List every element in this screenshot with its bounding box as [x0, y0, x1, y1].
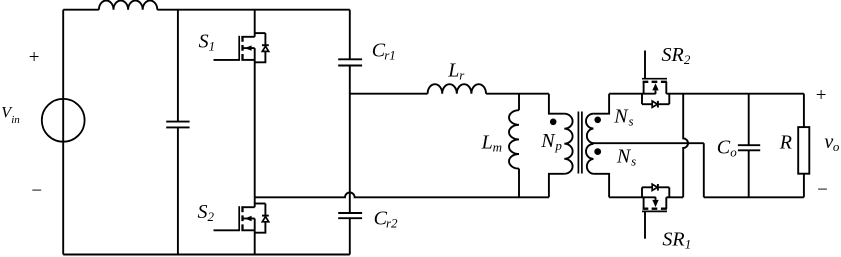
label + (output): [816, 85, 827, 106]
wire midpoint to primary return (with hop over Cr branch): [255, 193, 549, 198]
wire center tap descent: [703, 143, 705, 197]
transistor SR2: gate stub: [644, 51, 646, 79]
transistor SR2: left contact: [643, 82, 645, 94]
label S2: [198, 201, 215, 224]
svg-text:1: 1: [209, 39, 216, 54]
svg-text:2: 2: [208, 209, 215, 224]
wire SR1 drain lead (from secondary bottom): [609, 196, 656, 198]
wire load top stem: [803, 94, 805, 127]
node dot primary: [550, 119, 557, 126]
diode S2 body: anode line and step to source: [255, 222, 266, 233]
label Lr: [447, 60, 465, 83]
inductor Lm (4 bumps, bulge left): [509, 110, 519, 168]
wire SR1 source lead to junction vertical: [666, 196, 683, 198]
svg-text:C: C: [717, 137, 731, 159]
transformer primary winding (4 arcs, bulge right): [564, 114, 572, 174]
wire primary top lead: [549, 94, 564, 114]
svg-text:L: L: [481, 131, 493, 153]
transistor SR2: gate bar: [642, 78, 667, 80]
wire output bottom rail: [704, 196, 804, 198]
transistor SR1: left contact: [643, 197, 645, 208]
svg-text:p: p: [554, 138, 562, 153]
inductor input filter (top, 4 bumps): [99, 0, 157, 9]
svg-text:L: L: [447, 60, 459, 82]
capacitor Cr1 plates: [338, 59, 362, 65]
svg-text:S: S: [198, 201, 208, 223]
capacitor Cr2 plates: [338, 213, 362, 218]
diode SR1 body: anode line: [642, 186, 652, 188]
wire load bottom stem: [803, 174, 805, 198]
diode S2 body: cathode bar: [262, 215, 269, 217]
wire output top rail: [666, 93, 804, 95]
label SR1: [662, 229, 691, 252]
wire resonant branch to Lr: [350, 93, 428, 95]
transistor SR2: channel segments: [643, 81, 667, 83]
svg-text:o: o: [833, 139, 840, 154]
label Cr1: [372, 40, 396, 63]
label R: [779, 131, 792, 153]
label Vin: [1, 105, 20, 126]
wire secondary top lead: [593, 94, 609, 114]
transistor S2: body tie with arrow: [242, 218, 254, 220]
svg-text:o: o: [730, 145, 737, 160]
diode S1 body: cathode bar: [262, 44, 269, 46]
transistor S1: drain contact: [241, 36, 254, 38]
svg-text:r1: r1: [384, 48, 396, 63]
transistor S1: gate lead: [214, 59, 240, 61]
diode SR1 body: cathode bar: [657, 184, 659, 191]
diode SR1 body: triangle: [652, 184, 657, 190]
wire left vertical: [62, 10, 64, 255]
svg-text:N: N: [540, 130, 556, 152]
label S1: [199, 31, 216, 54]
wire center tap to output return: [592, 142, 704, 144]
transformer secondary upper winding (2 arcs, bulge left): [586, 114, 593, 144]
label Lm: [481, 131, 502, 154]
transistor S1: source contact: [241, 59, 254, 61]
svg-text:r: r: [459, 68, 465, 83]
svg-text:m: m: [493, 139, 502, 154]
wire Cr branch vertical (Cr2 to bottom rail): [349, 218, 351, 254]
svg-text:in: in: [11, 114, 20, 126]
svg-text:SR: SR: [662, 44, 684, 66]
transistor S1: drain vertical: [254, 10, 256, 37]
svg-text:SR: SR: [662, 229, 684, 251]
svg-text:S: S: [199, 31, 209, 53]
wire top rail left segment: [63, 9, 99, 11]
transistor SR2: right contact: [665, 82, 667, 94]
wire Cr branch vertical (Cr1 to Cr2, through resonant junction and under hop): [349, 66, 351, 214]
node dot secondary upper: [594, 117, 601, 124]
transistor SR2: body arrow: [655, 90, 657, 94]
svg-text:−: −: [817, 179, 828, 200]
inductor Lr (4 bumps): [428, 84, 486, 94]
transistor SR1: right contact: [665, 197, 667, 208]
transistor S2: gate bar: [238, 206, 240, 231]
svg-text:N: N: [613, 105, 629, 127]
diode SR1 body: cathode line: [658, 186, 669, 188]
wire secondary bottom lead: [593, 174, 609, 198]
label - (input): [31, 181, 42, 202]
capacitor input: bottom stem: [177, 127, 179, 254]
transistor S2: source contact: [241, 229, 254, 231]
transformer core lines: [578, 112, 582, 174]
svg-text:2: 2: [684, 52, 691, 67]
diode SR2 body: cathode line: [658, 103, 669, 105]
label Ns lower: [616, 146, 636, 169]
wire SR2 diode left step: [641, 94, 643, 105]
label Ns upper: [613, 105, 633, 128]
transformer secondary lower winding (2 arcs, bulge left): [586, 144, 593, 174]
transistor S2: drain vertical: [254, 197, 256, 207]
wire S2 source vertical to bottom rail: [254, 219, 256, 255]
svg-text:s: s: [629, 113, 634, 128]
diode S2 body: cathode line: [264, 204, 266, 216]
transistor S2: gate lead: [214, 229, 240, 231]
capacitor Co plates: [738, 145, 760, 150]
diode S2 body: triangle: [262, 217, 268, 222]
label Co: [717, 137, 737, 160]
transistor S1: gate bar: [238, 36, 240, 61]
diode S1 body: triangle: [262, 46, 268, 51]
diode SR2 body: triangle: [652, 101, 657, 107]
capacitor Co: bottom stem: [748, 150, 750, 197]
diode SR2 body: anode line: [642, 103, 652, 105]
capacitor input: top stem: [177, 10, 179, 122]
wire S1 source vertical to midpoint: [254, 48, 256, 197]
wire SR junction vertical with hop over center tap: [683, 94, 688, 198]
capacitor input plates: [166, 122, 189, 128]
svg-text:R: R: [779, 131, 792, 153]
svg-text:1: 1: [685, 237, 692, 252]
svg-text:N: N: [616, 146, 632, 168]
wire SR1 diode left step: [641, 187, 643, 197]
transistor S1: channel segments: [241, 36, 243, 60]
wire SR1 diode right step: [668, 187, 670, 197]
transistor SR1: gate bar: [642, 210, 667, 212]
svg-text:+: +: [29, 47, 40, 68]
wire Lr to primary node: [486, 93, 549, 95]
label vo: [824, 131, 840, 154]
wire primary bottom lead: [549, 174, 564, 198]
diode SR2 body: cathode bar: [657, 101, 659, 108]
diode S1 body: cathode line: [264, 33, 266, 45]
wire Cr branch vertical (top rail to Cr1): [349, 10, 351, 60]
wire Lm bottom lead: [518, 169, 520, 198]
svg-text:−: −: [31, 181, 42, 202]
label + (input): [29, 47, 40, 68]
wire SR2 drain lead (from secondary top): [609, 93, 656, 95]
transistor S1: body tie with arrow: [242, 47, 254, 49]
transistor S2: branch to diode: [255, 203, 266, 205]
transistor S2: drain contact: [241, 206, 254, 208]
wire SR2 diode right step: [668, 94, 670, 105]
label Np: [540, 130, 562, 153]
wire bottom rail: [63, 254, 350, 256]
resistor R body: [798, 127, 809, 174]
transistor SR1: body arrow: [655, 197, 657, 200]
svg-text:r2: r2: [386, 216, 398, 231]
label SR2: [662, 44, 691, 67]
transistor SR1: channel segments: [643, 208, 667, 210]
wire top rail right segment: [157, 9, 349, 11]
label - (output): [817, 179, 828, 200]
node dot secondary lower: [594, 148, 601, 155]
transistor S1: branch to diode: [255, 32, 266, 34]
diode S1 body: anode line and step to source: [255, 52, 266, 63]
wire Lm top lead: [518, 94, 520, 111]
svg-text:s: s: [631, 154, 636, 169]
transistor SR1: gate stub: [644, 211, 646, 238]
label Cr2: [374, 208, 398, 231]
source Vin circle: [42, 99, 85, 142]
svg-text:+: +: [816, 85, 827, 106]
capacitor Co: top stem: [748, 94, 750, 146]
transistor S2: channel segments: [241, 206, 243, 230]
